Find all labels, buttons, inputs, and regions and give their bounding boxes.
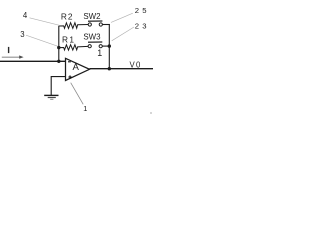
- leader from 4 to R2 corner: [30, 18, 60, 25]
- switch SW2: [88, 21, 102, 26]
- switch SW3: [88, 42, 102, 48]
- wire: SW3 to right vertical: [102, 45, 110, 47]
- svg-text:3: 3: [20, 30, 24, 39]
- svg-text:2: 2: [135, 22, 139, 31]
- svg-text:SW2: SW2: [83, 11, 100, 21]
- op-amp U1 (A): [66, 58, 90, 80]
- node: input junction dot: [57, 60, 60, 63]
- wire: right vertical feedback wire: [108, 25, 110, 69]
- label I (input current): [8, 47, 9, 53]
- svg-text:2: 2: [135, 6, 139, 15]
- svg-text:1: 1: [97, 48, 102, 58]
- svg-text:SW3: SW3: [83, 32, 100, 42]
- svg-text:5: 5: [142, 6, 146, 15]
- svg-text:V: V: [130, 60, 136, 69]
- leader from op-amp to label 1: [71, 83, 84, 105]
- wire: non-inverting input to ground: [51, 77, 65, 95]
- wire: output wire: [90, 68, 154, 70]
- leader from 3 to R1 node: [26, 35, 58, 46]
- svg-text:3: 3: [142, 22, 146, 31]
- wire: left vertical feedback wire: [58, 26, 60, 61]
- svg-text:2: 2: [68, 11, 73, 21]
- svg-text:4: 4: [23, 11, 28, 20]
- svg-text:1: 1: [83, 104, 87, 113]
- node: R1 junction dot: [57, 46, 60, 49]
- svg-text:1: 1: [69, 35, 74, 45]
- resistor R1: [59, 45, 88, 50]
- resistor R2: [59, 23, 88, 29]
- svg-text:0: 0: [136, 60, 141, 69]
- ground: [44, 95, 58, 99]
- current direction arrow: [2, 56, 21, 58]
- node: SW3 junction dot: [108, 44, 111, 47]
- scan speck: [150, 112, 152, 114]
- leader from 23 to SW3 wire: [112, 27, 134, 41]
- node: output junction dot: [108, 67, 111, 70]
- leader from 25 to SW2 corner: [111, 13, 133, 22]
- wire: SW2 to right vertical: [102, 24, 110, 26]
- svg-text:A: A: [73, 62, 80, 73]
- svg-text:R: R: [61, 11, 67, 21]
- svg-text:R: R: [62, 35, 68, 45]
- wire: main input wire: [0, 60, 66, 62]
